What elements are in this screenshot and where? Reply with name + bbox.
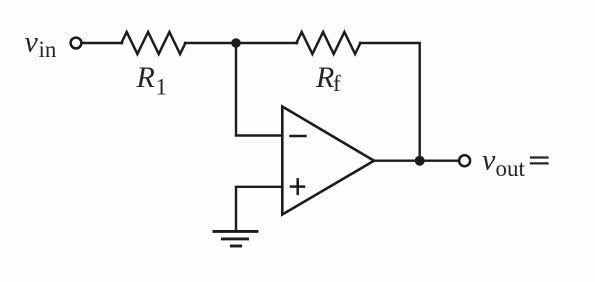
ground xyxy=(214,231,257,246)
node A (junction dot) xyxy=(231,38,241,48)
wire node A down to inverting input xyxy=(236,43,282,136)
resistor Rf xyxy=(296,32,360,54)
wire op-amp output to terminal xyxy=(374,159,459,161)
output node (junction dot) xyxy=(415,156,425,166)
wire R1 to Rf through node xyxy=(185,42,297,44)
svg-text:f: f xyxy=(333,71,341,96)
wire input to R1 xyxy=(83,42,122,44)
label R1 xyxy=(136,61,168,100)
wire Rf to feedback corner and down to output node xyxy=(360,43,420,157)
svg-text:in: in xyxy=(39,37,57,62)
svg-text:R: R xyxy=(136,61,155,94)
svg-text:v: v xyxy=(25,26,39,59)
svg-text:v: v xyxy=(482,144,496,177)
label Rf xyxy=(315,61,341,96)
resistor R1 xyxy=(121,32,185,54)
svg-text:out: out xyxy=(496,156,526,181)
svg-text:R: R xyxy=(315,61,334,94)
svg-text:1: 1 xyxy=(156,75,168,100)
output terminal (open circle) xyxy=(459,155,470,166)
input terminal (open circle) xyxy=(71,38,82,49)
label v_in xyxy=(25,26,57,63)
wire non-inverting input to ground xyxy=(236,187,282,231)
label v_out = xyxy=(482,144,548,182)
op-amp U1 xyxy=(282,107,374,215)
